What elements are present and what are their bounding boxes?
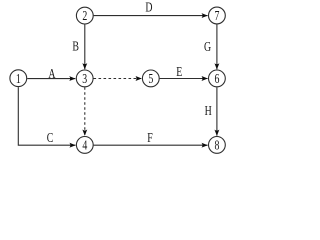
wire edge H (6 to 8) bbox=[216, 87, 218, 136]
svg-text:5: 5 bbox=[148, 70, 153, 86]
svg-text:6: 6 bbox=[214, 70, 219, 86]
svg-text:3: 3 bbox=[82, 70, 87, 86]
node 8 bbox=[209, 137, 226, 154]
wire edge G (7 to 6) bbox=[216, 24, 218, 69]
node 2 bbox=[76, 7, 93, 24]
wire edge B (2 to 3) bbox=[84, 24, 86, 69]
svg-text:A: A bbox=[48, 65, 56, 81]
wire edge C (1 to 4, L-shaped) bbox=[18, 87, 75, 145]
node 4 bbox=[76, 137, 93, 154]
svg-text:8: 8 bbox=[214, 137, 219, 153]
svg-text:4: 4 bbox=[82, 137, 87, 153]
wire edge F (4 to 8) bbox=[94, 144, 208, 146]
node 1 bbox=[10, 70, 27, 87]
svg-text:G: G bbox=[204, 38, 212, 54]
node 7 bbox=[209, 7, 226, 24]
wire edge D (2 to 7) bbox=[94, 15, 208, 17]
wire dashed dummy edge (3 to 4) bbox=[84, 87, 86, 135]
wire edge E (5 to 6) bbox=[160, 78, 208, 80]
wire edge A (1 to 3) bbox=[27, 78, 75, 80]
node 5 bbox=[142, 70, 159, 87]
svg-text:C: C bbox=[47, 130, 54, 146]
svg-text:B: B bbox=[72, 38, 79, 54]
svg-text:E: E bbox=[176, 63, 182, 79]
wire dashed dummy edge (3 to 5) bbox=[94, 78, 142, 80]
node 6 bbox=[209, 70, 226, 87]
svg-text:7: 7 bbox=[214, 8, 219, 24]
svg-text:2: 2 bbox=[82, 8, 87, 24]
node 3 bbox=[76, 70, 93, 87]
svg-text:1: 1 bbox=[16, 70, 21, 86]
svg-text:D: D bbox=[145, 0, 153, 15]
svg-text:F: F bbox=[147, 129, 153, 145]
svg-text:H: H bbox=[205, 102, 213, 118]
